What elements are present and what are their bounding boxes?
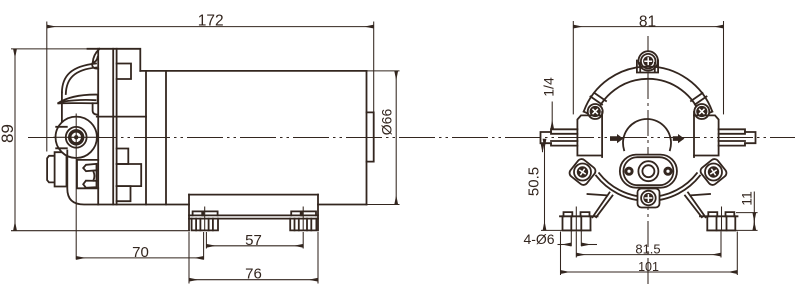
plate upper tab (117, 64, 131, 80)
dim 57 (206, 232, 303, 249)
pump head wing blade (58, 95, 98, 115)
dim 70 (76, 232, 203, 260)
bracket left foot (192, 207, 218, 231)
dim 57 label (245, 232, 262, 249)
dim 11 (736, 192, 758, 231)
svg-text:76: 76 (245, 266, 262, 283)
svg-text:81.5: 81.5 (635, 242, 660, 257)
dim 1/4 leader (543, 102, 553, 153)
dim 101 (561, 232, 738, 276)
dim 1/4 label (541, 77, 557, 97)
dim phi66 (367, 71, 400, 205)
flow arrow right (673, 134, 685, 143)
svg-text:50.5: 50.5 (526, 167, 543, 196)
top screw boss (637, 51, 658, 72)
flow arrow left (610, 134, 623, 143)
tilted boss left (568, 157, 598, 187)
svg-text:Ø66: Ø66 (379, 109, 395, 136)
port circle assembly (53, 117, 99, 158)
head flange plate (98, 49, 116, 205)
right leg strut (685, 193, 710, 218)
left leg strut (588, 193, 613, 218)
dim 172 label (198, 12, 224, 29)
arch clamp band (584, 67, 713, 119)
dim 76 (189, 232, 318, 284)
dim 172 dimension line with arrows (47, 22, 374, 152)
vertical centerline of front view (647, 36, 649, 288)
dim 70 label (132, 244, 149, 261)
bottom screw boss (638, 189, 660, 208)
dim 50.5 label (526, 167, 543, 196)
motor body outline (98, 71, 366, 205)
pump head top cap (88, 49, 141, 71)
mounting bracket (side view) (189, 195, 318, 231)
central dome (623, 119, 671, 150)
foot bottom line (563, 229, 736, 231)
dim 81.5 (576, 232, 721, 258)
under-circle block with claws (77, 160, 98, 188)
dim 11 label (739, 191, 755, 206)
svg-text:81: 81 (639, 13, 656, 30)
dim 89 dimension line with arrows (11, 49, 190, 231)
svg-text:172: 172 (198, 12, 224, 29)
svg-text:1/4: 1/4 (541, 77, 557, 97)
motor end terminal tab (367, 112, 374, 161)
dim 4-phi6 slot extension lines (558, 230, 598, 246)
dim phi66 label (379, 109, 395, 136)
svg-text:4-Ø6: 4-Ø6 (523, 231, 554, 247)
dim 50.5 (541, 139, 563, 230)
dim 4-phi6 label (523, 231, 554, 247)
tilted boss right (699, 157, 729, 187)
left side plate (577, 112, 602, 157)
right arch screw boss (694, 104, 709, 119)
svg-text:11: 11 (739, 191, 755, 206)
horizontal main centerline (28, 137, 795, 139)
svg-text:101: 101 (638, 260, 659, 274)
svg-text:57: 57 (245, 232, 262, 249)
left port tube (541, 129, 578, 145)
dim 76 label (245, 266, 262, 283)
dim 89 label (0, 124, 17, 143)
oval faceplate (620, 155, 677, 188)
port vertical centerline (75, 114, 77, 260)
front left foot (560, 207, 598, 231)
dim 81.5 label (635, 242, 660, 257)
plate lower tab boxes (117, 149, 142, 202)
dim 81 label (639, 13, 656, 30)
port fitting (side stub) (47, 152, 66, 186)
head bottom outline (67, 151, 98, 205)
svg-text:70: 70 (132, 244, 149, 261)
head port boss top edge (97, 116, 146, 118)
dim 101 label (638, 260, 659, 274)
front right foot (700, 207, 738, 231)
right port tube (719, 129, 756, 145)
pump head dome profile arc (62, 64, 97, 124)
bracket right foot (290, 207, 316, 231)
right side plate (694, 112, 719, 157)
housing bottom arcs (596, 173, 700, 201)
dim 81 (573, 21, 723, 114)
left arch screw boss (588, 104, 603, 119)
svg-text:89: 89 (0, 124, 17, 143)
